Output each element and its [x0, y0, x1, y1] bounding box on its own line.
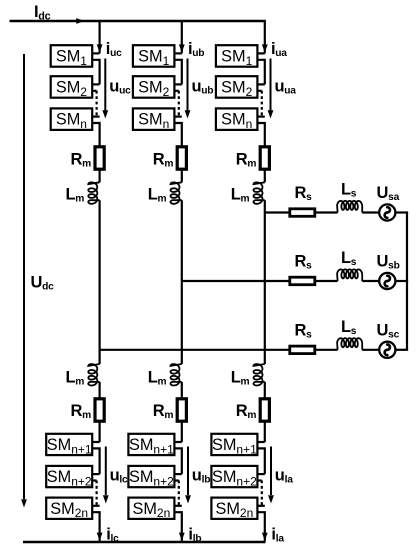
arrow u_lb (lower arm voltage, phase b) [187, 447, 189, 496]
resistor Rm (lower arm, phase b) [177, 399, 186, 421]
wire: SM2n to bottom bus c (arm current i_lc) [92, 512, 99, 541]
submodule SMn (upper arm, phase a) [216, 108, 258, 129]
resistor Rs (phase c) [290, 346, 315, 354]
wire: Lm to Rm lower arm c [98, 382, 100, 399]
wire: Rm to SMn+1 lower arm b [181, 421, 183, 442]
wire: right neutral bus [406, 213, 408, 350]
svg-text:Lm: Lm [231, 369, 250, 388]
wire: SMn+1-SMn+2 link lower arm a [257, 448, 264, 474]
wire: SMn+2 lower-arm c input stub [92, 473, 99, 475]
resistor Rm (upper arm, phase a) [260, 147, 269, 169]
wire: SMn+1 lower-arm c input stub [92, 441, 99, 443]
arrow u_ub (upper arm voltage, phase b) [187, 59, 189, 112]
wire: SMn to Rm upper arm c [92, 123, 99, 147]
inductor Ls (phase b) [337, 269, 362, 281]
wire: phase c leg middle (AC terminal node c) [98, 200, 100, 364]
wire: SM2n lower-arm b input stub [174, 505, 181, 507]
wire: SM2-SMn dashed continuation upper arm c [92, 90, 96, 92]
wire: bottom DC bus [23, 541, 266, 543]
wire: source U_sb to right bus [395, 280, 408, 282]
wire: Rm to Lm upper arm a [264, 169, 266, 182]
wire: leg b from top bus to SM1 (arm current i_ub) [181, 21, 183, 53]
submodule SMn+1 (lower arm, phase b) [128, 434, 174, 455]
svg-text:Lm: Lm [148, 186, 167, 205]
wire: SMn+2 lower-arm a input stub [257, 473, 264, 475]
submodule SMn+2 (lower arm, phase b) [128, 466, 174, 487]
wire: SM2-SMn dashed continuation upper arm a [257, 90, 261, 92]
arrow U_dc (DC-link voltage, left) [23, 54, 25, 499]
submodule SM2 (upper arm, phase c) [51, 76, 92, 98]
svg-text:Rm: Rm [153, 402, 174, 421]
inductor Lm (upper arm, phase c) [88, 182, 99, 204]
wire: leg a from top bus to SM1 (arm current i_ua) [264, 21, 266, 53]
resistor Rm (upper arm, phase b) [177, 147, 186, 169]
wire: AC node a to Rs [265, 211, 290, 213]
resistor Rm (lower arm, phase c) [95, 399, 104, 421]
svg-text:Idc: Idc [34, 3, 51, 22]
submodule SMn+2 (lower arm, phase a) [211, 466, 257, 487]
submodule SMn+1 (lower arm, phase a) [211, 434, 257, 455]
wire: Lm to Rm lower arm b [181, 382, 183, 399]
svg-text:Usc: Usc [377, 321, 400, 340]
inductor Lm (lower arm, phase c) [88, 364, 99, 386]
wire: SM2 upper-arm b input stub [174, 83, 181, 85]
svg-text:uub: uub [192, 78, 214, 97]
arrow u_ua (upper arm voltage, phase a) [270, 59, 272, 112]
submodule SMn (upper arm, phase c) [51, 108, 92, 129]
arrow u_uc (upper arm voltage, phase c) [104, 59, 106, 112]
wire: Rm to SMn+1 lower arm a [264, 421, 266, 442]
inductor Ls (phase a) [337, 201, 362, 213]
svg-text:Ls: Ls [341, 249, 357, 268]
submodule SM1 (upper arm, phase a) [216, 45, 258, 66]
wire: Rs to Ls phase b [315, 280, 338, 282]
wire: SM1 upper-arm b input stub [174, 52, 181, 54]
submodule SMn (upper arm, phase b) [133, 108, 175, 129]
svg-text:Lm: Lm [66, 369, 85, 388]
svg-text:Udc: Udc [31, 274, 55, 293]
wire: Ls to source U_sa [362, 211, 379, 213]
svg-text:iua: iua [271, 40, 287, 59]
svg-text:Rm: Rm [153, 151, 174, 170]
wire: SMn to Rm upper arm b [174, 123, 181, 147]
svg-text:uua: uua [275, 78, 297, 97]
wire: leg c from top bus to SM1 (arm current i_uc) [98, 21, 100, 53]
wire: SMn upper-arm b input stub [174, 115, 181, 117]
wire: source U_sc to right bus [395, 349, 408, 351]
arrow u_lc (lower arm voltage, phase c) [105, 447, 107, 496]
wire: SM2n to bottom bus b (arm current i_lb) [174, 512, 181, 541]
wire: SMn+2-SM2n dashed continuation lower arm b [174, 479, 178, 481]
svg-text:Rm: Rm [236, 402, 257, 421]
wire: Ls to source U_sc [362, 349, 379, 351]
wire: Ls to source U_sb [362, 280, 379, 282]
submodule SM2n (lower arm, phase b) [128, 498, 174, 519]
wire: SMn+2 lower-arm b input stub [174, 473, 181, 475]
wire: SMn+1-SMn+2 link lower arm b [174, 448, 181, 474]
svg-text:Rm: Rm [236, 151, 257, 170]
inductor Lm (lower arm, phase a) [254, 364, 265, 386]
svg-text:Usa: Usa [377, 184, 400, 203]
wire: SM2 upper-arm c input stub [92, 83, 99, 85]
submodule SMn+2 (lower arm, phase c) [46, 466, 92, 487]
submodule SM1 (upper arm, phase c) [51, 45, 92, 66]
wire: AC node b to Rs [182, 280, 290, 282]
wire: SM2n lower-arm c input stub [92, 505, 99, 507]
resistor Rs (phase a) [290, 209, 315, 217]
wire: SM1-SM2 link upper arm c [92, 60, 99, 85]
wire: SM1-SM2 link upper arm b [174, 60, 181, 85]
submodule SM1 (upper arm, phase b) [133, 45, 175, 66]
resistor Rm (lower arm, phase a) [260, 399, 269, 421]
submodule SM2 (upper arm, phase b) [133, 76, 175, 98]
wire: SM1 upper-arm a input stub [257, 52, 264, 54]
wire: Lm to Rm lower arm a [264, 382, 266, 399]
svg-text:Usb: Usb [377, 253, 400, 272]
svg-text:Ls: Ls [341, 181, 357, 200]
wire: SM2n lower-arm a input stub [257, 505, 264, 507]
wire: Rm to Lm upper arm b [181, 169, 183, 182]
svg-text:Rm: Rm [71, 402, 92, 421]
submodule SM2n (lower arm, phase c) [46, 498, 92, 519]
svg-text:Rs: Rs [295, 321, 313, 340]
svg-text:Rs: Rs [295, 184, 313, 203]
wire: Rs to Ls phase c [315, 349, 338, 351]
wire: phase a leg middle (AC terminal node a) [264, 200, 266, 364]
svg-text:iuc: iuc [106, 40, 122, 59]
wire: Rs to Ls phase a [315, 211, 338, 213]
wire: SMn+2-SM2n dashed continuation lower arm a [257, 479, 261, 481]
wire: AC node c to Rs [100, 349, 290, 351]
svg-text:Lm: Lm [231, 186, 250, 205]
wire: Rm to Lm upper arm c [98, 169, 100, 182]
wire: SMn+2-SM2n dashed continuation lower arm c [92, 479, 96, 481]
inductor Lm (lower arm, phase b) [171, 364, 182, 386]
AC source U_sc (phase c) [379, 342, 395, 358]
wire: phase b leg middle (AC terminal node b) [181, 200, 183, 364]
wire: top DC bus [10, 20, 266, 22]
wire: SMn+1-SMn+2 link lower arm c [92, 448, 99, 474]
svg-text:ulb: ulb [192, 467, 210, 486]
resistor Rm (upper arm, phase c) [95, 147, 104, 169]
AC source U_sa (phase a) [379, 204, 395, 220]
svg-text:iub: iub [188, 40, 204, 59]
inductor Ls (phase c) [337, 338, 362, 350]
wire: Rm to SMn+1 lower arm c [98, 421, 100, 442]
arrow: Idc current direction [76, 18, 84, 24]
resistor Rs (phase b) [290, 277, 315, 285]
wire: SMn to Rm upper arm a [257, 123, 264, 147]
wire: SMn upper-arm c input stub [92, 115, 99, 117]
wire: SM2 upper-arm a input stub [257, 83, 264, 85]
submodule SMn+1 (lower arm, phase c) [46, 434, 92, 455]
inductor Lm (upper arm, phase a) [254, 182, 265, 204]
AC source U_sb (phase b) [379, 273, 395, 289]
svg-text:Lm: Lm [66, 186, 85, 205]
svg-text:Rs: Rs [295, 253, 313, 272]
svg-text:Lm: Lm [148, 369, 167, 388]
inductor Lm (upper arm, phase b) [171, 182, 182, 204]
wire: source U_sa to right bus [395, 211, 408, 213]
svg-text:Ls: Ls [341, 318, 357, 337]
wire: SM2-SMn dashed continuation upper arm b [174, 90, 178, 92]
svg-text:Rm: Rm [71, 151, 92, 170]
wire: SM1-SM2 link upper arm a [257, 60, 264, 85]
submodule SM2n (lower arm, phase a) [211, 498, 257, 519]
svg-text:ula: ula [275, 467, 293, 486]
wire: SMn+1 lower-arm a input stub [257, 441, 264, 443]
svg-text:ila: ila [271, 526, 284, 545]
wire: SM1 upper-arm c input stub [92, 52, 99, 54]
arrow u_la (lower arm voltage, phase a) [270, 447, 272, 496]
wire: SMn upper-arm a input stub [257, 115, 264, 117]
wire: SM2n to bottom bus a (arm current i_la) [257, 512, 264, 541]
svg-text:ulc: ulc [110, 467, 128, 486]
wire: SMn+1 lower-arm b input stub [174, 441, 181, 443]
svg-text:uuc: uuc [109, 78, 131, 97]
submodule SM2 (upper arm, phase a) [216, 76, 258, 98]
